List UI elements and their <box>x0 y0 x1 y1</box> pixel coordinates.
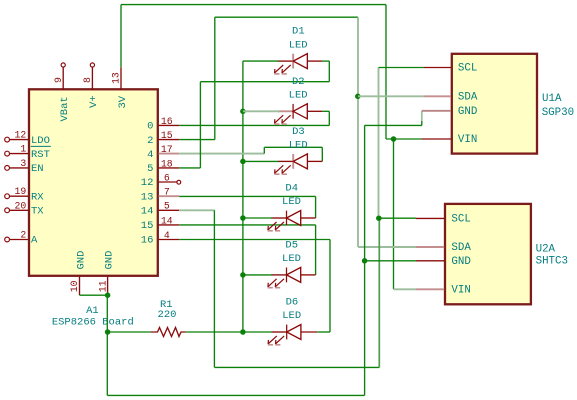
reference U2A <box>536 243 556 255</box>
pin 13 (3V) of A1 <box>111 67 129 108</box>
junction D4 cathode <box>240 215 246 221</box>
wire D5 anode down <box>315 225 317 275</box>
value SHTC3 <box>536 255 568 267</box>
pin 16 (0) of A1 <box>147 116 179 133</box>
svg-text:15: 15 <box>161 130 173 141</box>
ESP8266 board A1 body <box>29 89 158 275</box>
junction GND pins <box>105 292 111 298</box>
IC U1A body <box>452 54 537 154</box>
wire top 3V rail <box>121 4 386 6</box>
junction SCL <box>376 215 382 221</box>
pin 17 (4) of A1 <box>147 144 179 161</box>
value ESP8266 Board <box>52 317 134 329</box>
svg-text:LED: LED <box>282 253 301 265</box>
svg-text:GND: GND <box>451 256 470 268</box>
pin 1 (RST) of A1 <box>5 144 51 161</box>
wire to U1A VIN <box>386 138 421 140</box>
pin 11 (GND) of A1 <box>97 251 115 296</box>
wire R1 to bus <box>186 331 243 333</box>
wire to U2A VIN <box>394 288 417 290</box>
pin SCL of U1A <box>424 63 478 75</box>
wire D1 anode stub <box>322 60 329 62</box>
pin 18 (5) of A1 <box>147 158 179 175</box>
svg-text:6: 6 <box>164 172 170 183</box>
svg-text:SCL: SCL <box>451 213 470 225</box>
svg-text:A1: A1 <box>86 305 99 317</box>
wire D6 anode down <box>329 240 331 333</box>
wire D2 cathode <box>243 110 280 112</box>
svg-text:LED: LED <box>289 140 308 152</box>
wire LED cathode bus <box>242 61 244 332</box>
svg-text:LDO: LDO <box>31 135 50 147</box>
svg-text:10: 10 <box>69 280 80 292</box>
wire GND bottom rail <box>107 394 364 396</box>
svg-text:1: 1 <box>20 144 26 155</box>
svg-text:19: 19 <box>15 186 27 197</box>
svg-text:SDA: SDA <box>451 242 471 254</box>
wire D3 cathode <box>243 160 279 162</box>
junction R1 row cathode <box>240 329 246 335</box>
svg-text:2: 2 <box>147 135 153 147</box>
reference U1A <box>542 93 562 105</box>
svg-text:15: 15 <box>141 220 154 232</box>
svg-text:5: 5 <box>147 163 153 175</box>
svg-text:A: A <box>31 235 38 247</box>
pin GND of U2A <box>416 256 471 268</box>
svg-text:13: 13 <box>111 72 122 84</box>
svg-text:4: 4 <box>164 230 170 241</box>
svg-text:U1A: U1A <box>542 93 562 105</box>
svg-text:SGP30: SGP30 <box>542 107 574 119</box>
wire SCL down <box>213 210 215 367</box>
wire pin 15 to D5 <box>179 224 315 226</box>
wire SDA up <box>214 17 216 139</box>
svg-text:20: 20 <box>15 200 27 211</box>
svg-text:GND: GND <box>75 251 87 270</box>
wire SDA top rail <box>215 16 358 18</box>
svg-text:U2A: U2A <box>536 243 556 255</box>
wire GND vertical right <box>364 125 366 395</box>
pin 5 (14) of A1 <box>141 201 179 218</box>
wire SCL bottom rail <box>214 366 379 368</box>
wire to U2A SDA <box>358 246 416 248</box>
svg-text:V+: V+ <box>88 95 100 108</box>
pin 4 (16) of A1 <box>141 230 179 247</box>
svg-text:16: 16 <box>161 116 173 127</box>
wire D5 cathode <box>243 274 272 276</box>
wire to U1A SCL <box>379 67 424 69</box>
svg-text:SDA: SDA <box>458 91 478 103</box>
wire pin 5 up <box>199 82 201 168</box>
resistor R1 <box>151 299 186 336</box>
svg-text:D5: D5 <box>285 239 298 251</box>
svg-text:ESP8266 Board: ESP8266 Board <box>52 317 134 329</box>
LED D4 <box>268 183 316 231</box>
wire SCL from pin 14 <box>179 209 214 211</box>
wire to U2A SCL <box>379 217 416 219</box>
svg-text:3V: 3V <box>117 95 129 108</box>
junction D3 cathode <box>240 159 246 165</box>
pin 10 (GND) of A1 <box>69 251 87 296</box>
svg-text:12: 12 <box>15 130 27 141</box>
pin VIN of U2A <box>416 284 471 296</box>
svg-text:SCL: SCL <box>458 63 477 75</box>
svg-text:12: 12 <box>141 177 154 189</box>
svg-text:D2: D2 <box>292 76 305 88</box>
wire GND jog up muted <box>421 111 423 121</box>
junction SDA <box>355 94 361 100</box>
svg-text:VIN: VIN <box>451 284 470 296</box>
junction D2 cathode <box>240 109 246 115</box>
wire D6 anode stub <box>317 331 330 333</box>
pin GND of U1A <box>422 106 478 118</box>
svg-text:VIN: VIN <box>458 134 477 146</box>
svg-text:RX: RX <box>31 191 44 203</box>
IC U2A body <box>445 204 531 304</box>
pin SDA of U2A <box>416 242 471 254</box>
wire SCL vertical upper <box>378 68 380 219</box>
wire VIN down to U2A <box>393 139 395 289</box>
svg-text:D1: D1 <box>292 26 305 38</box>
svg-text:LED: LED <box>282 196 301 208</box>
wire pin 5 right <box>179 167 200 169</box>
svg-text:13: 13 <box>141 191 154 203</box>
svg-text:8: 8 <box>82 77 93 83</box>
pin 6 (12) of A1 <box>141 172 177 189</box>
wire jog right D3 <box>264 146 322 148</box>
svg-text:9: 9 <box>53 77 64 83</box>
junction GND R1 <box>105 329 111 335</box>
pin 2 (A) of A1 <box>5 230 38 247</box>
svg-text:SHTC3: SHTC3 <box>536 255 568 267</box>
pin 3 (EN) of A1 <box>5 158 44 175</box>
LED D3 <box>274 126 322 174</box>
svg-text:RST: RST <box>31 149 50 161</box>
wire pin 13 to D4 <box>179 195 315 197</box>
wire pin 16 to D6 <box>179 239 330 241</box>
svg-text:220: 220 <box>158 309 177 321</box>
svg-text:EN: EN <box>31 163 44 175</box>
pin VIN of U1A <box>421 134 477 146</box>
pin SDA of U1A <box>424 91 478 103</box>
wire GND pins join <box>80 294 108 296</box>
wire D1 rail <box>200 81 329 83</box>
svg-text:D6: D6 <box>286 297 299 309</box>
wire to U1A SDA <box>358 95 424 97</box>
reference A1 <box>86 305 99 317</box>
svg-text:17: 17 <box>161 144 173 155</box>
svg-text:LED: LED <box>289 39 308 51</box>
wire to U2A GND <box>365 260 416 262</box>
svg-text:7: 7 <box>164 187 170 198</box>
svg-text:14: 14 <box>141 206 154 218</box>
pin 15 (2) of A1 <box>147 130 179 147</box>
pin 19 (RX) of A1 <box>5 186 45 203</box>
wire D6 cathode <box>243 331 272 333</box>
wire GND jog up <box>421 121 423 125</box>
pin 7 (13) of A1 <box>141 187 179 204</box>
wire D2 anode stub <box>322 110 329 112</box>
wire SDA vertical <box>357 17 359 247</box>
value SGP30 <box>542 107 574 119</box>
pin 20 (TX) of A1 <box>5 200 45 217</box>
wire D4 anode down <box>315 196 317 218</box>
svg-text:4: 4 <box>147 149 153 161</box>
pin 12 (LDO) of A1 <box>5 130 50 147</box>
wire D1 anode down <box>328 61 330 82</box>
pin 6 open-end circle <box>177 180 181 184</box>
junction GND U2A <box>362 258 368 264</box>
LED D1 <box>274 26 322 74</box>
wire VIN vertical <box>385 5 387 139</box>
svg-text:VBat: VBat <box>59 96 71 121</box>
svg-text:LED: LED <box>282 310 301 322</box>
svg-text:3: 3 <box>20 158 26 169</box>
wire GND down <box>106 295 108 395</box>
svg-text:LED: LED <box>289 90 308 102</box>
svg-text:14: 14 <box>161 215 173 226</box>
wire 3V pin up <box>120 5 122 68</box>
svg-text:GND: GND <box>103 251 115 270</box>
wire GND top jog <box>365 124 422 126</box>
LED D2 <box>274 76 322 124</box>
svg-text:0: 0 <box>147 121 153 133</box>
svg-text:D4: D4 <box>285 183 298 195</box>
junction D5 cathode <box>240 272 246 278</box>
pin 8 (V+) of A1 <box>82 63 100 108</box>
svg-text:2: 2 <box>20 230 26 241</box>
wire pin 0 to D2 <box>179 124 329 126</box>
wire SDA from pin 2 <box>179 139 215 141</box>
svg-text:11: 11 <box>97 280 108 292</box>
svg-text:TX: TX <box>31 206 44 218</box>
pin 14 (15) of A1 <box>141 215 179 232</box>
wire D3 anode down <box>321 147 323 161</box>
LED D6 <box>268 297 317 345</box>
svg-text:16: 16 <box>141 235 154 247</box>
svg-text:5: 5 <box>164 201 170 212</box>
pin SCL of U2A <box>416 213 471 225</box>
junction VIN <box>391 136 397 142</box>
wire jog up D3 <box>263 147 265 153</box>
svg-text:D3: D3 <box>292 126 305 138</box>
pin 9 (VBat) of A1 <box>53 63 71 122</box>
wire GND to R1 <box>108 331 151 333</box>
svg-text:GND: GND <box>458 106 477 118</box>
svg-text:18: 18 <box>161 158 173 169</box>
wire D2 anode down <box>328 111 330 125</box>
wire D4 cathode <box>243 217 272 219</box>
wire pin 4 to jog <box>179 153 264 155</box>
wire SCL vertical lower <box>378 218 380 367</box>
wire D1 cathode <box>243 60 279 62</box>
LED D5 <box>268 239 316 287</box>
